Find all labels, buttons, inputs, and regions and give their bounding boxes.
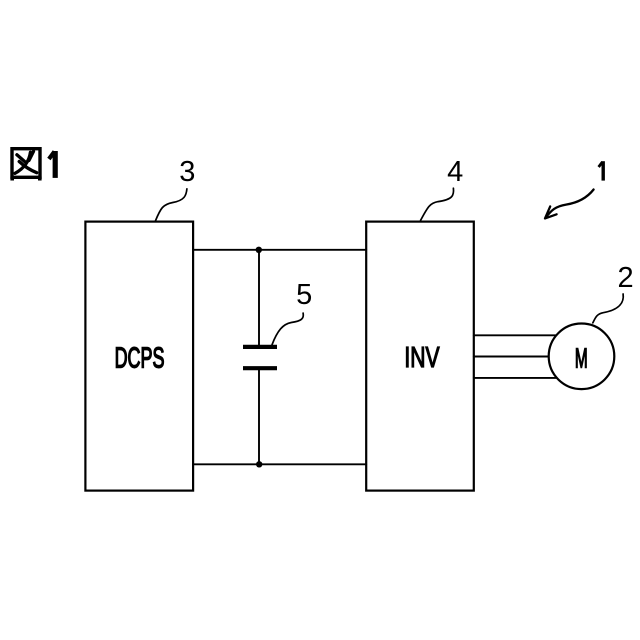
figure title 図 inner right-falling stroke: [19, 162, 37, 173]
capacitor 5 top plate: [243, 345, 277, 349]
block DCPS 3: [85, 222, 193, 491]
arrow shaft for 1: [546, 190, 594, 218]
ref numeral 1 flag: [599, 162, 603, 167]
wire motor phase top: [474, 334, 557, 336]
svg-text:2: 2: [618, 262, 634, 294]
figure title numeral 1 stem: [53, 151, 58, 178]
wire DC bus top: [193, 249, 366, 251]
svg-text:3: 3: [179, 156, 195, 188]
svg-text:4: 4: [447, 156, 463, 188]
figure title 図 inner tick left: [17, 155, 25, 162]
leader line for 3: [155, 189, 187, 221]
wire motor phase bottom: [474, 377, 557, 379]
leader line for 4: [421, 188, 454, 220]
figure title 図 left foot: [10, 177, 14, 181]
capacitor 5 bottom lead wire: [258, 370, 260, 464]
svg-text:DCPS: DCPS: [115, 342, 165, 374]
motor M 2 circle: [549, 324, 615, 390]
svg-text:INV: INV: [404, 342, 439, 374]
junction dot top node: [256, 247, 262, 253]
figure title numeral 1 flag: [49, 152, 55, 160]
capacitor 5 bottom plate: [243, 366, 277, 370]
block INV 4: [366, 222, 474, 491]
leader line for 2: [593, 294, 623, 323]
svg-text:M: M: [575, 343, 588, 374]
svg-text:5: 5: [296, 279, 312, 311]
figure title 図 inner tick right: [29, 151, 34, 160]
leader line for 5: [272, 313, 303, 345]
figure title 図 right foot: [38, 177, 42, 181]
ref numeral 1 stem: [602, 161, 605, 180]
figure title 図 inner left-falling stroke: [15, 152, 30, 173]
wire motor phase middle: [474, 356, 549, 358]
junction dot bottom node: [256, 461, 262, 467]
arrowhead for 1: [545, 206, 557, 218]
wire DC bus bottom: [193, 463, 366, 465]
figure title box of 図: [12, 149, 40, 178]
capacitor 5 top lead wire: [258, 250, 260, 345]
